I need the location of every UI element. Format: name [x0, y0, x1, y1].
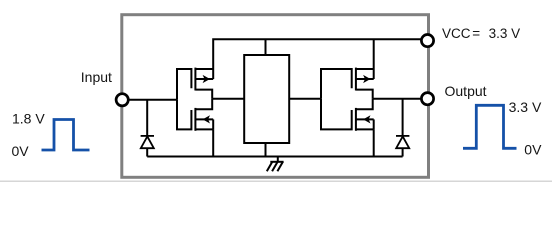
wire Q2 source to ground rail — [212, 129, 214, 156]
svg-text:0V: 0V — [524, 141, 542, 157]
transistor Q2 NMOS (left inverter bottom) — [177, 99, 213, 131]
svg-text:3.3 V: 3.3 V — [509, 99, 542, 115]
output waveform 3.3V pulse — [463, 105, 517, 148]
wire VCC drop to block — [265, 39, 267, 55]
wire VCC drop to Q3 source — [373, 39, 375, 69]
diode D2 (output ESD) — [396, 99, 409, 157]
ground rail wire — [147, 156, 402, 158]
pin Input — [116, 94, 128, 106]
svg-text:3.3 V: 3.3 V — [489, 26, 521, 41]
wire inverter1 output to block — [212, 98, 244, 100]
transistor Q1 PMOS (left inverter top) — [177, 68, 213, 100]
page divider line — [0, 180, 552, 182]
package outline (IC boundary) — [122, 15, 429, 178]
pin Output — [421, 93, 433, 105]
svg-text:0V: 0V — [12, 143, 30, 159]
diode D1 (input ESD) — [141, 100, 154, 157]
control block U1 — [244, 55, 289, 143]
wire input line — [129, 99, 177, 101]
svg-text:Output: Output — [445, 83, 487, 99]
svg-text:VCC: VCC — [442, 26, 471, 41]
svg-text:1.8 V: 1.8 V — [12, 111, 45, 127]
wire inverter2 output to output pin — [373, 98, 421, 100]
wire block bottom to ground rail — [265, 143, 267, 157]
transistor Q4 NMOS (right inverter bottom) — [321, 99, 374, 131]
VCC rail wire — [213, 39, 421, 69]
wire Q4 source to ground rail — [373, 129, 375, 156]
input waveform 1.8V pulse — [42, 120, 90, 151]
wire block to inverter2 gate — [289, 98, 322, 100]
transistor Q3 PMOS (right inverter top) — [321, 68, 374, 99]
ground symbol — [267, 157, 284, 172]
svg-text:=: = — [472, 26, 480, 41]
pin VCC — [421, 35, 433, 47]
svg-text:Input: Input — [81, 69, 112, 85]
